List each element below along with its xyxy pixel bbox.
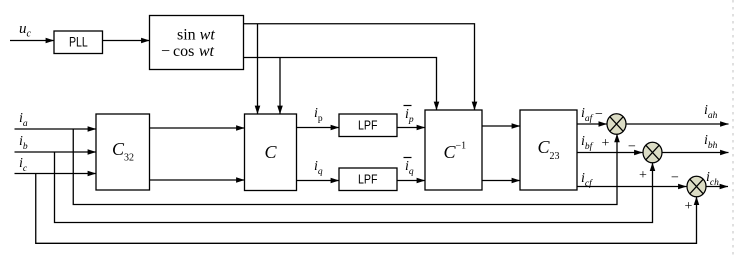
svg-text:C: C [265, 142, 278, 162]
summer node 1 (phase a) [607, 114, 626, 135]
wire feedback i_b [55, 152, 653, 223]
wire PLL to sin/cos block [103, 40, 150, 42]
svg-text:C32: C32 [112, 139, 134, 164]
wire cos output [244, 58, 437, 111]
svg-text:LPF: LPF [358, 118, 378, 133]
svg-text:−: − [671, 171, 679, 186]
svg-text:ib: ib [19, 134, 28, 152]
wire i_ah output [626, 123, 728, 125]
wire C to LPF2 [297, 180, 340, 182]
wire C32 to C lower [150, 179, 245, 181]
wire sin branch down to C [257, 24, 259, 114]
block C32 [96, 114, 150, 190]
block C [245, 114, 297, 191]
wire sin output top [244, 24, 475, 110]
svg-text:−: − [628, 140, 636, 155]
svg-text:+: + [685, 199, 693, 214]
svg-text:C23: C23 [538, 137, 560, 162]
svg-text:iq: iq [405, 159, 414, 177]
svg-text:ia: ia [19, 111, 28, 129]
svg-text:iq: iq [314, 159, 323, 177]
wire C32 to C upper [150, 127, 245, 129]
wire i_a input [15, 128, 97, 130]
svg-text:PLL: PLL [69, 34, 88, 50]
svg-text:iaf: iaf [581, 106, 594, 124]
wire i_c input [15, 173, 97, 175]
wire Cinv to C23 lower [482, 180, 520, 182]
bar of ibar_p [404, 105, 412, 107]
block LPF2 [339, 168, 397, 191]
svg-text:ibh: ibh [704, 133, 718, 151]
svg-text:C−1: C−1 [444, 141, 467, 163]
wire LPF1 to Cinv [397, 127, 425, 129]
svg-text:iah: iah [704, 103, 718, 121]
wire i_cf to summer 3 [577, 186, 687, 188]
page boundary dashed line [732, 0, 734, 256]
block C inverse [425, 110, 482, 190]
wire u_c input [10, 40, 54, 42]
svg-text:−: − [595, 107, 603, 122]
svg-text:sin wt: sin wt [177, 27, 215, 44]
svg-text:+: + [639, 168, 647, 183]
svg-text:−coswt: −coswt [161, 43, 215, 60]
svg-text:ip: ip [314, 106, 323, 124]
wire i_ch output [707, 186, 729, 188]
svg-text:ip: ip [405, 107, 414, 125]
wire i_bh output [663, 152, 729, 154]
summer node 3 (phase c) [687, 176, 706, 197]
svg-text:ich: ich [706, 170, 719, 188]
wire Cinv to C23 upper [482, 125, 520, 127]
block PLL [54, 31, 103, 54]
wire i_bf to summer 2 [577, 152, 643, 154]
wire i_af to summer 1 [577, 123, 607, 125]
svg-text:+: + [602, 136, 610, 151]
bar of ibar_q [404, 157, 412, 159]
svg-text:ibf: ibf [581, 134, 594, 152]
svg-text:uc: uc [19, 21, 32, 40]
block LPF1 [339, 114, 397, 137]
block sin/cos generator [150, 16, 244, 70]
wire feedback i_a [73, 129, 617, 205]
wire LPF2 to Cinv [397, 180, 425, 182]
summer node 2 (phase b) [643, 142, 662, 163]
wire C to LPF1 [297, 127, 340, 129]
wire cos branch down to C [279, 58, 281, 115]
svg-text:ic: ic [19, 156, 28, 174]
svg-text:LPF: LPF [358, 172, 378, 187]
block C23 [520, 110, 577, 190]
wire feedback i_c [36, 174, 697, 244]
wire i_b input [15, 151, 97, 153]
